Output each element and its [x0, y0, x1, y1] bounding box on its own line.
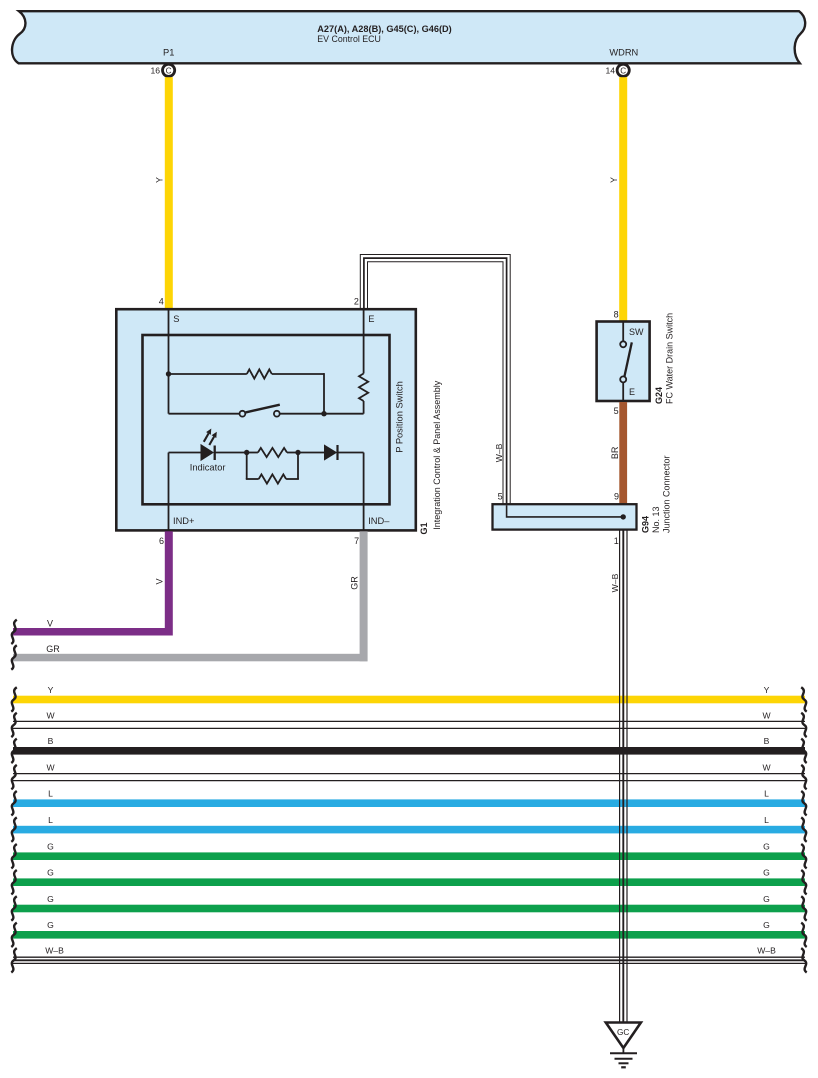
switch wire top inside G24 — [622, 322, 624, 342]
svg-text:5: 5 — [614, 406, 619, 416]
svg-text:V: V — [154, 578, 164, 584]
svg-text:Junction Connector: Junction Connector — [661, 455, 671, 533]
svg-text:L: L — [764, 815, 769, 825]
switch blade — [246, 405, 280, 413]
svg-text:EV Control ECU: EV Control ECU — [317, 34, 381, 44]
switch line right segment — [280, 413, 364, 415]
wire W-B from G94 pin 1 down to ground GC (three-line, crosses buses) — [619, 530, 621, 1022]
wire top branch — [169, 373, 247, 375]
wire Y from WDRN pin 14 to G24 pin 8 — [619, 77, 627, 321]
svg-text:8: 8 — [614, 310, 619, 320]
svg-text:G24: G24 — [654, 387, 664, 404]
switch line left segment — [169, 413, 240, 415]
svg-text:W: W — [762, 710, 771, 720]
svg-text:Indicator: Indicator — [190, 462, 226, 472]
torn ends of bus wire L — [11, 791, 16, 815]
bus wire L at y=803.2 — [13, 799, 805, 807]
bus wire G at y=908.5 — [13, 905, 805, 913]
svg-text:Y: Y — [609, 177, 619, 183]
wire to diode — [298, 452, 325, 454]
torn ends of bus wire L — [11, 817, 16, 841]
svg-text:Y: Y — [48, 685, 54, 695]
wire diode to IND- riser — [338, 452, 364, 454]
switch wire bottom inside G24 — [622, 382, 624, 401]
wire IND+ vertical — [168, 453, 170, 530]
svg-text:L: L — [764, 789, 769, 799]
torn ends of bus wire W — [11, 713, 16, 737]
bus wire Y at y=699.5 — [13, 696, 805, 704]
wire E vertical inside G1 — [363, 309, 365, 374]
svg-text:W: W — [46, 710, 55, 720]
ground GC symbol — [606, 1023, 641, 1049]
svg-text:C: C — [620, 66, 626, 75]
wire LED branch from IND+ riser — [169, 452, 202, 454]
wire BR from G24 pin 5 to G94 pin 9 — [619, 402, 627, 505]
torn ends of bus wire G — [11, 896, 16, 920]
component G1 Integration Control & Panel Assembly (outer box) — [116, 309, 416, 530]
svg-text:E: E — [629, 387, 635, 397]
node dot left of resistor pair — [244, 450, 249, 455]
svg-text:W–B: W–B — [757, 946, 776, 956]
torn end of wire V — [11, 620, 16, 644]
bus wire W-B at y=960.3 — [13, 956, 805, 958]
svg-text:G: G — [763, 868, 770, 878]
resistor right (vertical) — [359, 374, 368, 402]
svg-text:G: G — [47, 894, 54, 904]
node junction dot on S wire — [166, 371, 171, 376]
wire LED to resistor pair — [215, 452, 247, 454]
node junction dot inside G94 — [621, 514, 626, 519]
svg-text:G: G — [47, 920, 54, 930]
switch blade G24 — [624, 342, 631, 376]
torn end of wire GR — [11, 645, 16, 669]
svg-text:B: B — [764, 736, 770, 746]
wire IND- vertical — [363, 453, 365, 530]
switch contact left — [240, 411, 246, 417]
svg-text:L: L — [48, 789, 53, 799]
torn ends of bus wire W-B — [11, 948, 16, 972]
svg-text:B: B — [48, 736, 54, 746]
resistor top (series) — [247, 369, 272, 378]
bus bar inside G94 — [507, 505, 624, 517]
svg-text:5: 5 — [498, 491, 503, 501]
switch contact top (SW) — [620, 341, 626, 347]
bus wire G at y=882.2 — [13, 878, 805, 886]
svg-text:A27(A), A28(B), G45(C), G46(D): A27(A), A28(B), G45(C), G46(D) — [317, 24, 451, 34]
svg-text:P Position Switch: P Position Switch — [394, 381, 404, 453]
svg-text:9: 9 — [614, 491, 619, 501]
bus wire G at y=934.8 — [13, 931, 805, 939]
wire W-B from G1 pin 2 up and over to G94 pin 5 — [364, 258, 507, 503]
EV Control ECU connector banner A27/A28/G45/G46 — [12, 11, 805, 63]
component G24 FC Water Drain Switch — [597, 322, 650, 402]
svg-text:6: 6 — [159, 536, 164, 546]
svg-text:W–B: W–B — [45, 946, 64, 956]
svg-text:W: W — [762, 763, 771, 773]
diode D1 — [324, 444, 337, 460]
bus wire B at y=750.8 — [13, 747, 805, 755]
torn ends of bus wire G — [11, 923, 16, 947]
switch contact right — [274, 411, 280, 417]
svg-text:W: W — [46, 763, 55, 773]
torn ends of bus wire W — [11, 765, 16, 789]
svg-text:S: S — [173, 314, 179, 324]
LED indicator diode — [201, 444, 215, 461]
switch contact bottom (E) — [620, 376, 626, 382]
resistor parallel lower branch — [246, 453, 248, 480]
node dot right of resistor pair — [295, 450, 300, 455]
svg-text:BR: BR — [610, 446, 620, 459]
svg-text:W–B: W–B — [494, 443, 504, 462]
svg-text:No. 13: No. 13 — [651, 506, 661, 533]
wire Y from P1 pin 16 to G1 pin 4 — [165, 77, 173, 309]
svg-text:WDRN: WDRN — [609, 48, 638, 58]
wire V from G1 pin 6 — [165, 531, 173, 635]
svg-text:G: G — [763, 920, 770, 930]
svg-text:7: 7 — [354, 536, 359, 546]
bus wire W at y=777.1 — [13, 773, 805, 775]
LED arrows — [204, 433, 209, 441]
node junction dot on switch line — [321, 411, 326, 416]
wire from resistor to corner — [272, 373, 324, 375]
svg-text:Integration Control & Panel As: Integration Control & Panel Assembly — [432, 380, 442, 530]
wire GR from G1 pin 7 — [360, 531, 368, 661]
svg-text:G: G — [763, 894, 770, 904]
torn ends of bus wire Y — [11, 687, 16, 711]
svg-text:14: 14 — [605, 66, 615, 76]
svg-text:16: 16 — [150, 66, 160, 76]
svg-text:FC Water Drain Switch: FC Water Drain Switch — [664, 313, 674, 404]
torn ends of bus wire G — [11, 844, 16, 868]
bus wire L at y=829.6 — [13, 826, 805, 834]
torn ends of bus wire G — [11, 870, 16, 894]
bus wire G at y=856.2 — [13, 852, 805, 860]
svg-text:V: V — [47, 618, 53, 628]
svg-text:P1: P1 — [163, 48, 174, 58]
svg-text:L: L — [48, 815, 53, 825]
svg-text:G: G — [47, 868, 54, 878]
bus wire W at y=724.9 — [13, 720, 805, 722]
svg-text:Y: Y — [764, 685, 770, 695]
svg-text:2: 2 — [354, 297, 359, 307]
svg-text:IND–: IND– — [368, 516, 390, 526]
svg-text:SW: SW — [629, 327, 644, 337]
svg-text:G1: G1 — [419, 522, 429, 534]
svg-text:4: 4 — [159, 297, 164, 307]
svg-text:C: C — [166, 66, 172, 75]
svg-text:IND+: IND+ — [173, 516, 194, 526]
svg-text:1: 1 — [614, 536, 619, 546]
svg-text:GC: GC — [617, 1028, 629, 1037]
svg-text:Y: Y — [154, 177, 164, 183]
resistor parallel upper — [247, 452, 258, 454]
wire S vertical inside G1 — [168, 309, 170, 414]
svg-text:GR: GR — [46, 644, 60, 654]
svg-text:G: G — [763, 842, 770, 852]
svg-text:GR: GR — [349, 576, 359, 590]
svg-text:W–B: W–B — [610, 573, 620, 592]
inner box P Position Switch — [143, 335, 390, 504]
svg-text:G94: G94 — [641, 516, 651, 533]
svg-text:G: G — [47, 842, 54, 852]
svg-text:E: E — [368, 314, 374, 324]
component G94 No.13 Junction Connector — [493, 504, 637, 529]
torn ends of bus wire B — [11, 739, 16, 763]
